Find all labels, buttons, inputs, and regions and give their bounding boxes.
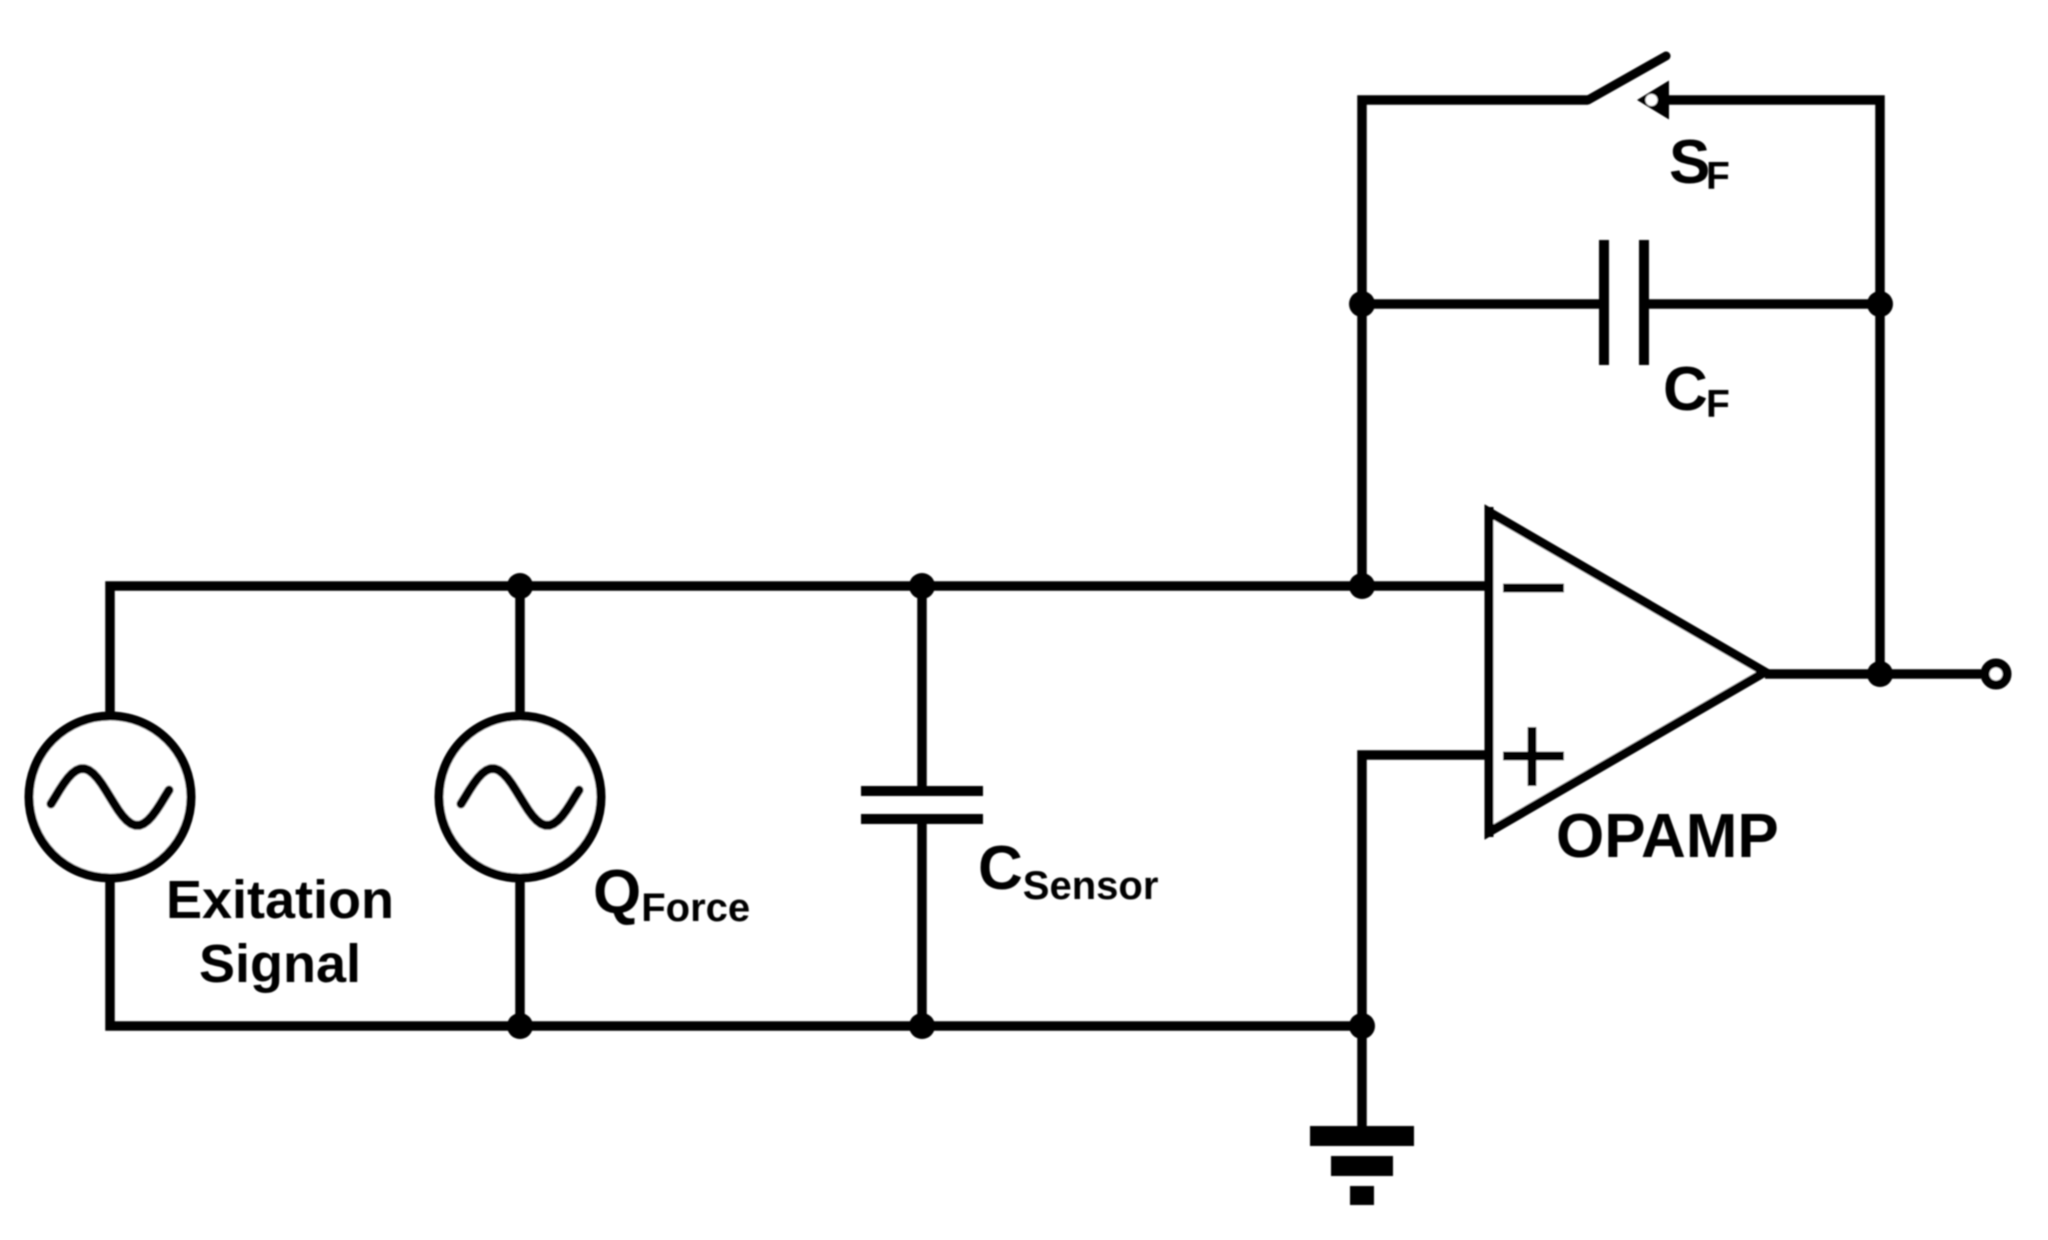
- node top rail / C_Sensor: [909, 573, 935, 599]
- output terminal open circle: [1985, 663, 2007, 685]
- node top rail / feedback: [1349, 573, 1375, 599]
- wire top rail from excitation source to op-amp inverting input: [110, 586, 1489, 716]
- wire C_Sensor bottom lead: [917, 819, 927, 1026]
- op-amp plus input sign: [1503, 727, 1564, 786]
- wire Q_Force source bottom drop: [515, 878, 525, 1026]
- node C_F left: [1349, 291, 1375, 317]
- wire ground lead: [1357, 1026, 1367, 1128]
- node C_F right: [1867, 291, 1893, 317]
- sine symbol of source Q_Force: [461, 769, 579, 826]
- node bottom rail / Q_Force: [507, 1013, 533, 1039]
- svg-text:OPAMP: OPAMP: [1556, 802, 1779, 871]
- wire Q_Force source top drop: [515, 586, 525, 716]
- svg-text:Signal: Signal: [199, 934, 361, 994]
- switch S_F contact arrow: [1637, 81, 1669, 120]
- wire left source bottom and bottom rail: [110, 878, 1362, 1026]
- wire C_Sensor top lead: [917, 586, 927, 791]
- wire non-inverting input: [1362, 755, 1489, 1026]
- voltage source Q_Force: [439, 716, 601, 878]
- op-amp left edge overshoot: [1485, 507, 1494, 837]
- node bottom rail / ground: [1349, 1013, 1375, 1039]
- svg-text:Exitation: Exitation: [166, 870, 394, 930]
- sine symbol of source V1: [51, 769, 169, 826]
- wire switch right segment and feedback right vertical: [1664, 100, 1880, 674]
- ground symbol: [1310, 1126, 1414, 1205]
- node top rail / Q_Force: [507, 573, 533, 599]
- node output: [1867, 661, 1893, 687]
- op-amp U1 triangle: [1489, 512, 1765, 832]
- capacitor C_F plates: [1604, 240, 1644, 365]
- capacitor C_Sensor plates: [861, 791, 983, 819]
- voltage source V1 Exitation Signal: [29, 716, 191, 878]
- wire C_F right lead: [1648, 299, 1880, 309]
- wire C_F left lead: [1362, 299, 1600, 309]
- op-amp minus input sign: [1503, 584, 1564, 593]
- switch S_F lever: [1588, 56, 1666, 100]
- node bottom rail / C_Sensor: [909, 1013, 935, 1039]
- wire feedback left vertical up to switch: [1362, 100, 1588, 586]
- wire op-amp output: [1765, 669, 1981, 679]
